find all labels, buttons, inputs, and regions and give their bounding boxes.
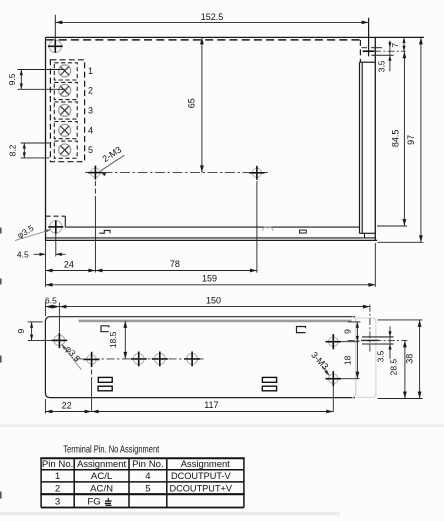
svg-text:Terminal Pin. No Assignment: Terminal Pin. No Assignment (63, 443, 159, 454)
svg-text:2: 2 (55, 483, 60, 494)
svg-text:159: 159 (202, 273, 217, 283)
svg-text:3.5: 3.5 (376, 350, 386, 362)
svg-text:1: 1 (55, 471, 60, 482)
svg-text:DCOUTPUT+V: DCOUTPUT+V (170, 483, 233, 493)
svg-text:4: 4 (145, 471, 151, 482)
svg-text:9: 9 (16, 328, 26, 333)
svg-text:97: 97 (406, 135, 416, 145)
svg-text:5: 5 (145, 483, 150, 494)
svg-text:Pin No.: Pin No. (42, 459, 73, 470)
svg-text:4: 4 (88, 126, 93, 136)
svg-text:7: 7 (390, 43, 400, 48)
svg-text:3.5: 3.5 (376, 60, 386, 72)
svg-text:117: 117 (204, 400, 218, 410)
svg-text:9: 9 (343, 329, 353, 334)
svg-text:Assignment: Assignment (77, 458, 126, 469)
svg-text:1: 1 (88, 66, 93, 76)
svg-text:AC/N: AC/N (90, 483, 113, 494)
svg-text:78: 78 (170, 259, 180, 269)
svg-text:150: 150 (206, 296, 221, 306)
svg-text:FG: FG (87, 497, 100, 508)
svg-text:2: 2 (88, 86, 93, 96)
svg-text:DCOUTPUT-V: DCOUTPUT-V (171, 471, 232, 481)
svg-text:18: 18 (343, 355, 353, 365)
svg-text:Pin No.: Pin No. (132, 459, 163, 470)
svg-text:4.5: 4.5 (17, 249, 29, 259)
svg-text:AC/L: AC/L (91, 471, 113, 482)
svg-text:28.5: 28.5 (388, 359, 398, 376)
svg-text:3: 3 (55, 497, 60, 508)
svg-text:9.5: 9.5 (7, 73, 17, 85)
svg-text:6.5: 6.5 (45, 296, 57, 306)
svg-text:24: 24 (64, 259, 74, 269)
svg-text:65: 65 (187, 98, 197, 108)
svg-text:Assignment: Assignment (181, 458, 230, 469)
svg-text:3: 3 (88, 106, 93, 116)
svg-text:22: 22 (62, 401, 72, 411)
svg-text:18.5: 18.5 (108, 331, 118, 348)
svg-text:84.5: 84.5 (390, 130, 400, 148)
svg-text:38: 38 (405, 354, 415, 364)
svg-text:5: 5 (88, 145, 93, 155)
svg-text:152.5: 152.5 (201, 12, 224, 22)
svg-text:8.2: 8.2 (8, 144, 18, 156)
